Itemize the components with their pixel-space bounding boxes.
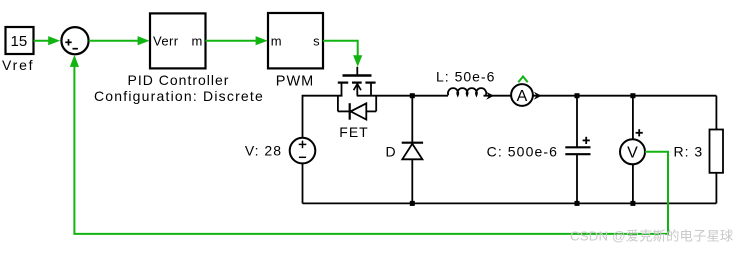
node diode top junction — [410, 93, 415, 98]
sum junction — [61, 27, 88, 54]
wire voltmeter feedback green — [74, 65, 668, 234]
node cap top junction — [575, 93, 580, 98]
wire inductor to ammeter — [484, 95, 512, 97]
PWM block — [268, 13, 323, 68]
node voltmeter top junction — [630, 93, 635, 98]
wire PID to PWM — [206, 40, 261, 42]
wire ammeter to right corner — [533, 95, 716, 97]
node diode bottom junction — [410, 201, 415, 206]
svg-text:PWM: PWM — [276, 74, 314, 90]
svg-text:15: 15 — [11, 33, 28, 50]
svg-text:A: A — [517, 88, 528, 105]
node signal caret — [518, 77, 527, 83]
diode D — [411, 96, 413, 143]
svg-text:Verr: Verr — [153, 33, 179, 48]
svg-text:CSDN @爱克斯的电子星球: CSDN @爱克斯的电子星球 — [570, 229, 733, 244]
wire sum to PID — [89, 40, 142, 42]
wire top rail left — [303, 96, 343, 137]
wire bottom rail — [303, 202, 717, 204]
svg-text:Vref: Vref — [2, 57, 34, 73]
svg-text:D: D — [386, 143, 396, 159]
PID controller block — [150, 13, 206, 68]
svg-text:FET: FET — [339, 124, 368, 140]
svg-text:V: V — [627, 145, 638, 162]
svg-text:R: 3: R: 3 — [674, 144, 704, 160]
voltmeter V — [632, 96, 634, 139]
transistor FET (MOSFET with body diode) — [338, 67, 376, 120]
resistor R — [715, 96, 717, 130]
svg-text:s: s — [313, 33, 320, 48]
wire top rail middle — [357, 95, 448, 97]
wire Vref to sum — [34, 40, 53, 42]
ammeter A — [511, 84, 533, 106]
svg-text:L: 50e-6: L: 50e-6 — [436, 69, 495, 85]
svg-text:V: 28: V: 28 — [245, 142, 282, 158]
svg-text:m: m — [271, 33, 282, 48]
inductor L — [448, 88, 486, 95]
svg-text:m: m — [191, 33, 202, 48]
wire PWM to FET gate — [323, 41, 358, 57]
voltage source V: 28 — [290, 138, 316, 164]
wire V source bottom — [302, 163, 304, 203]
constant block Vref value 15 — [6, 27, 34, 54]
capacitor C — [576, 96, 578, 148]
svg-text:Configuration: Discrete: Configuration: Discrete — [94, 88, 264, 104]
node cap bottom junction — [575, 201, 580, 206]
svg-text:C: 500e-6: C: 500e-6 — [487, 144, 558, 160]
svg-text:PID Controller: PID Controller — [128, 72, 230, 88]
node voltmeter bottom junction — [630, 201, 635, 206]
